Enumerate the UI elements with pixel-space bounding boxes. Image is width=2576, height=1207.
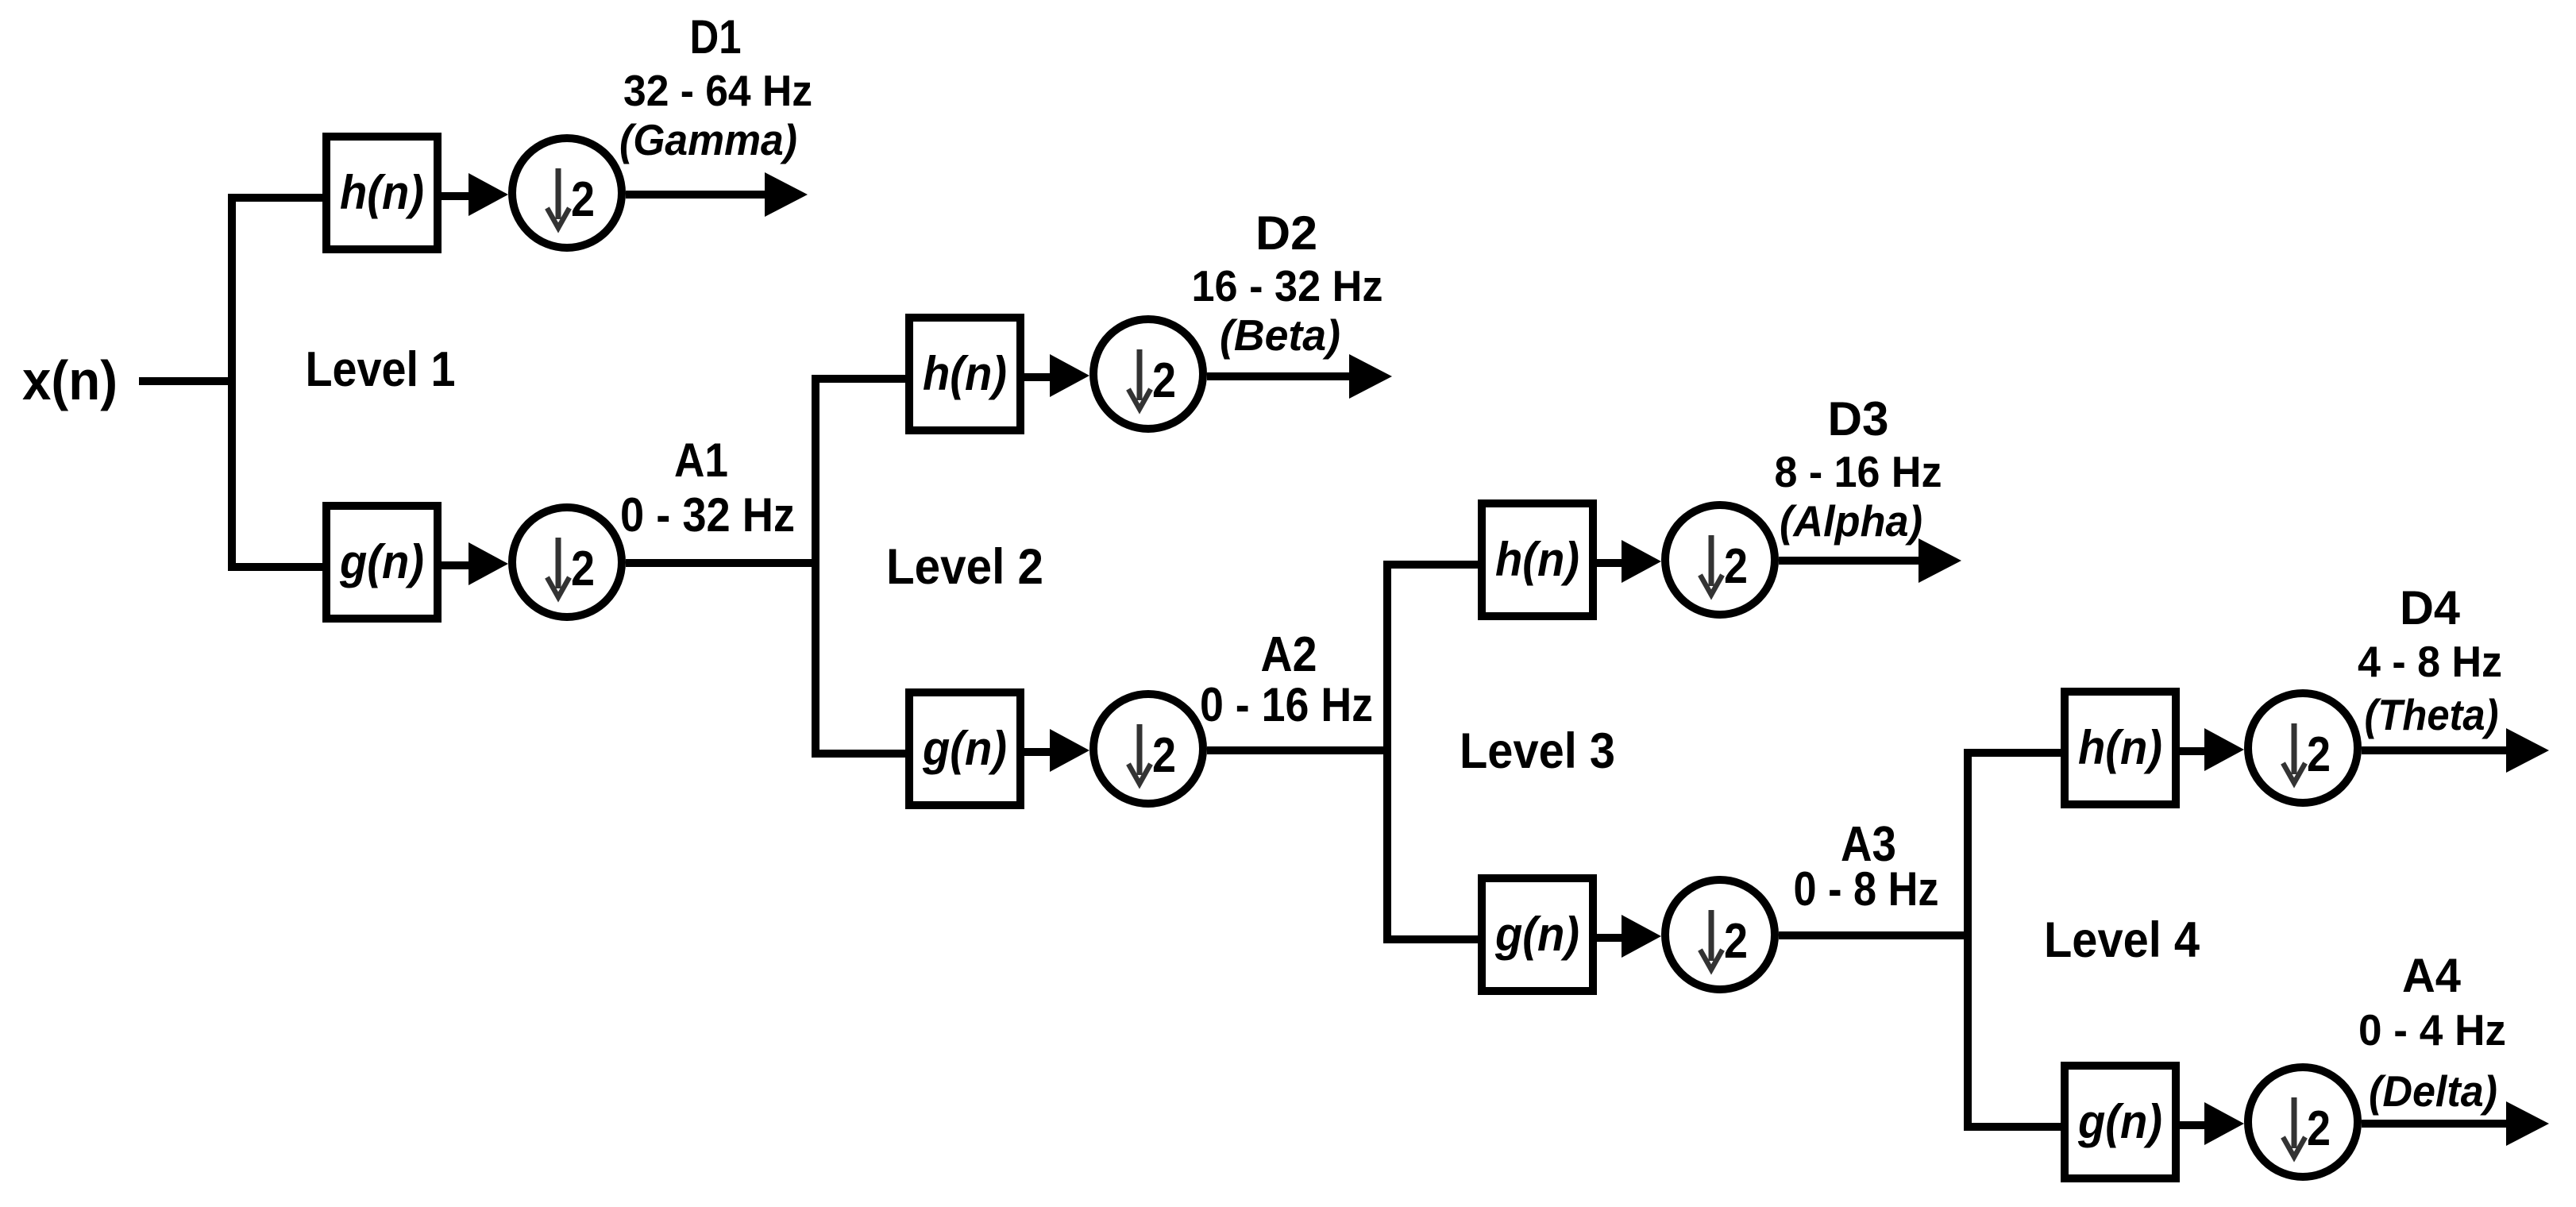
filter box h(n) L2 h — [909, 318, 1020, 430]
svg-text:2: 2 — [1724, 914, 1748, 969]
svg-text:D4: D4 — [2400, 581, 2461, 634]
wire L3 g box to downsampler with arrowhead — [1597, 915, 1661, 958]
svg-text:g(n): g(n) — [339, 535, 424, 588]
wire level 4 branch bracket — [1968, 753, 2061, 1127]
svg-text:(Gamma): (Gamma) — [619, 115, 797, 164]
svg-text:Level 2: Level 2 — [886, 539, 1043, 595]
svg-text:2: 2 — [571, 542, 595, 596]
wire L2 g box to downsampler with arrowhead — [1024, 729, 1089, 772]
svg-text:16 - 32 Hz: 16 - 32 Hz — [1192, 261, 1383, 310]
svg-text:A2: A2 — [1261, 627, 1317, 682]
output D1 arrow — [626, 172, 808, 217]
wire level 3 branch bracket — [1387, 565, 1478, 939]
downsampler circle (down-arrow 2) L1 g — [512, 507, 622, 617]
filter box h(n) L3 h — [1482, 503, 1593, 616]
filter box g(n) L1 g — [326, 506, 438, 619]
downsampler circle (down-arrow 2) L4 h — [2248, 693, 2358, 803]
svg-text:4 - 8 Hz: 4 - 8 Hz — [2358, 637, 2502, 686]
downsampler circle (down-arrow 2) L1 h — [512, 138, 622, 248]
wire L4 g box to downsampler with arrowhead — [2180, 1102, 2244, 1145]
svg-text:2: 2 — [1152, 353, 1176, 408]
svg-text:2: 2 — [2307, 1101, 2331, 1156]
downsampler circle (down-arrow 2) L4 g — [2248, 1067, 2358, 1177]
wire level 2 branch bracket — [816, 379, 905, 754]
svg-text:Level 3: Level 3 — [1460, 723, 1615, 779]
svg-text:h(n): h(n) — [2078, 721, 2162, 774]
filter box g(n) L4 g — [2065, 1066, 2176, 1178]
filter box h(n) L1 h — [326, 137, 438, 249]
svg-text:D3: D3 — [1828, 392, 1889, 445]
output D3 arrow — [1779, 538, 1961, 583]
wire L1 h box to downsampler with arrowhead — [442, 173, 508, 216]
svg-text:(Theta): (Theta) — [2365, 690, 2499, 739]
output D2 arrow — [1207, 354, 1392, 399]
svg-text:(Delta): (Delta) — [2369, 1066, 2497, 1116]
node A1 wire — [626, 559, 816, 567]
filter box g(n) L3 g — [1482, 878, 1593, 991]
svg-text:A1: A1 — [674, 434, 728, 487]
svg-text:2: 2 — [571, 172, 595, 227]
svg-text:8 - 16 Hz: 8 - 16 Hz — [1775, 447, 1942, 496]
svg-text:2: 2 — [2307, 727, 2331, 782]
wire L2 h box to downsampler with arrowhead — [1024, 354, 1089, 397]
svg-text:(Alpha): (Alpha) — [1780, 496, 1922, 546]
svg-text:0 - 32 Hz: 0 - 32 Hz — [620, 488, 795, 542]
svg-text:x(n): x(n) — [22, 349, 118, 411]
output D4 arrow — [2362, 728, 2549, 773]
svg-text:A4: A4 — [2402, 949, 2462, 1002]
svg-text:h(n): h(n) — [923, 347, 1007, 400]
wire L3 h box to downsampler with arrowhead — [1597, 540, 1661, 583]
svg-text:h(n): h(n) — [340, 166, 424, 219]
svg-text:D2: D2 — [1255, 206, 1317, 260]
node A3 wire — [1779, 931, 1968, 939]
downsampler circle (down-arrow 2) L3 g — [1665, 880, 1775, 989]
wire level 1 branch bracket — [232, 198, 322, 567]
svg-text:0 - 16 Hz: 0 - 16 Hz — [1200, 678, 1373, 731]
svg-text:Level 4: Level 4 — [2044, 912, 2200, 968]
svg-text:g(n): g(n) — [1494, 908, 1579, 961]
svg-text:0 - 4 Hz: 0 - 4 Hz — [2358, 1005, 2506, 1055]
wire L1 g box to downsampler with arrowhead — [442, 542, 508, 585]
svg-text:2: 2 — [1724, 539, 1748, 594]
downsampler circle (down-arrow 2) L3 h — [1665, 505, 1775, 615]
wire L4 h box to downsampler with arrowhead — [2180, 728, 2244, 771]
svg-text:g(n): g(n) — [2077, 1095, 2162, 1148]
svg-text:D1: D1 — [690, 10, 742, 64]
filter box h(n) L4 h — [2065, 692, 2176, 804]
node A2 wire — [1207, 746, 1387, 754]
svg-text:32 - 64 Hz: 32 - 64 Hz — [623, 66, 812, 115]
filter box g(n) L2 g — [909, 692, 1020, 805]
svg-text:g(n): g(n) — [922, 722, 1007, 775]
svg-text:(Beta): (Beta) — [1220, 310, 1340, 360]
downsampler circle (down-arrow 2) L2 h — [1093, 319, 1203, 429]
input x(n) wire — [139, 377, 232, 385]
svg-text:2: 2 — [1152, 728, 1176, 783]
downsampler circle (down-arrow 2) L2 g — [1093, 694, 1203, 804]
output A4 arrow — [2362, 1101, 2549, 1146]
svg-text:Level 1: Level 1 — [306, 342, 456, 397]
svg-text:h(n): h(n) — [1495, 533, 1579, 586]
svg-text:0 - 8 Hz: 0 - 8 Hz — [1794, 862, 1939, 916]
